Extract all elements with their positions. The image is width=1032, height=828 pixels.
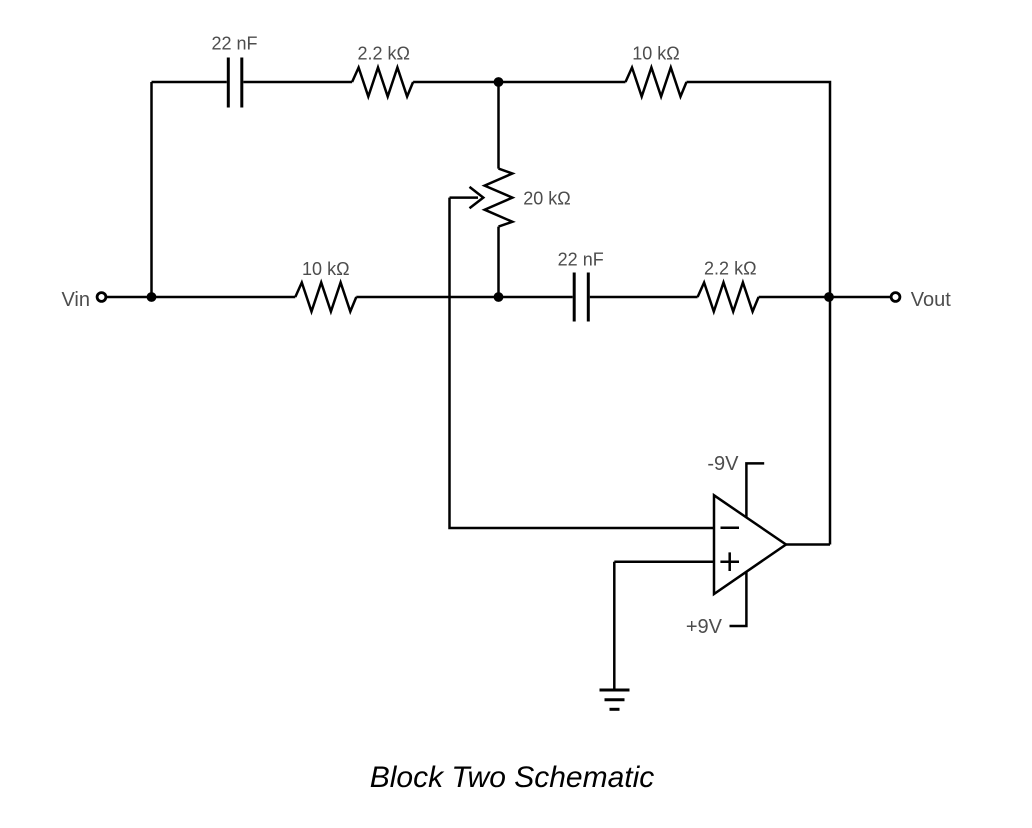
svg-text:Vout: Vout bbox=[911, 289, 951, 311]
svg-text:10 kΩ: 10 kΩ bbox=[302, 259, 349, 279]
node B junction dot middle bbox=[494, 292, 504, 302]
node junction dot left bbox=[147, 292, 157, 302]
wire left vertical Vin branch bbox=[150, 82, 153, 297]
svg-text:20 kΩ: 20 kΩ bbox=[523, 189, 570, 209]
wire R3 to node B bbox=[356, 296, 498, 299]
wire junction to resistor R3 bbox=[152, 296, 296, 299]
wire top rail left segment bbox=[152, 81, 227, 84]
resistor R3 10k middle bbox=[295, 283, 356, 312]
svg-text:-9V: -9V bbox=[707, 453, 739, 475]
op-amp minus symbol bbox=[721, 526, 740, 529]
wire R4 to node C bbox=[759, 296, 829, 299]
wire Vin terminal to junction bbox=[106, 296, 152, 299]
wiper arrowhead bbox=[470, 187, 484, 208]
resistor R2 10k top bbox=[626, 68, 687, 97]
wire negative supply -9V bbox=[746, 463, 764, 517]
terminal Vin bbox=[97, 293, 106, 302]
svg-text:22 nF: 22 nF bbox=[558, 250, 604, 270]
node C junction dot Vout bbox=[824, 292, 834, 302]
wire wiper arm horizontal bbox=[450, 196, 479, 199]
node A junction dot top bbox=[494, 77, 504, 87]
svg-text:Vin: Vin bbox=[61, 289, 90, 311]
resistor R4 2.2k middle bbox=[698, 283, 759, 312]
wire positive supply +9V bbox=[730, 572, 747, 626]
svg-text:2.2 kΩ: 2.2 kΩ bbox=[704, 259, 756, 279]
svg-text:10 kΩ: 10 kΩ bbox=[632, 44, 679, 64]
wire C2 to resistor R4 bbox=[590, 296, 698, 299]
wire node C to Vout terminal bbox=[829, 296, 891, 299]
op-amp U1 triangle bbox=[714, 495, 786, 594]
terminal Vout bbox=[891, 293, 900, 302]
ground bbox=[600, 690, 630, 709]
wire wiper down to op-amp minus input bbox=[450, 198, 715, 528]
potentiometer RV1 top lead bbox=[497, 82, 500, 169]
wire cap C1 to resistor R1 bbox=[243, 81, 352, 84]
wire plus input bbox=[614, 560, 714, 563]
capacitor C1 22nF top bbox=[228, 58, 242, 108]
wire node A to resistor R2 bbox=[499, 81, 626, 84]
potentiometer RV1 20k body bbox=[485, 169, 513, 227]
resistor R1 2.2k top bbox=[352, 68, 413, 97]
potentiometer RV1 bottom lead bbox=[497, 227, 500, 297]
capacitor C2 22nF middle bbox=[574, 273, 588, 322]
wire right rail lower bbox=[829, 297, 832, 545]
wire R1 to node A bbox=[413, 81, 498, 84]
svg-text:+9V: +9V bbox=[686, 616, 723, 638]
wire node B to capacitor C2 bbox=[499, 296, 573, 299]
svg-text:22 nF: 22 nF bbox=[211, 34, 257, 54]
op-amp plus symbol bbox=[720, 552, 739, 571]
svg-text:2.2 kΩ: 2.2 kΩ bbox=[357, 44, 409, 64]
wire plus input down to ground bbox=[613, 562, 616, 690]
wire op-amp output bbox=[786, 543, 830, 546]
svg-text:Block Two Schematic: Block Two Schematic bbox=[370, 761, 655, 794]
wire R2 to right rail corner bbox=[687, 82, 831, 297]
